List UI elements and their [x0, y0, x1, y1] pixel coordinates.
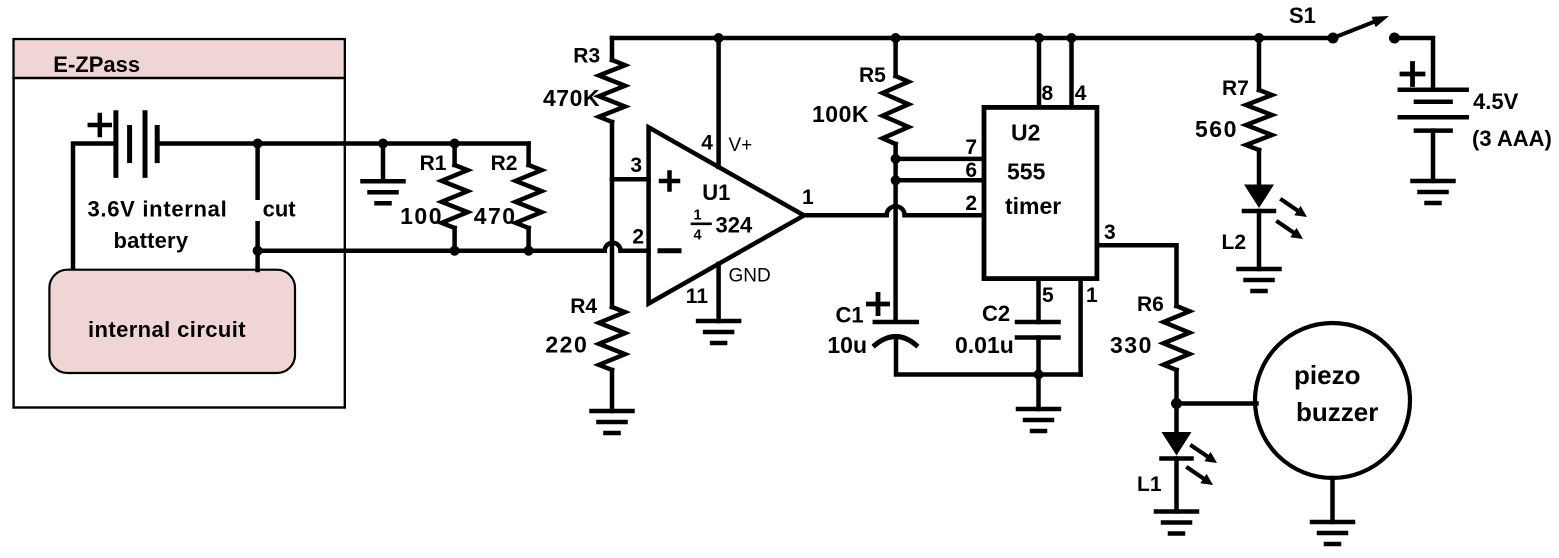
svg-text:100: 100 — [400, 203, 443, 229]
svg-text:4: 4 — [701, 132, 713, 155]
svg-text:battery: battery — [114, 228, 189, 253]
svg-text:C2: C2 — [982, 301, 1010, 326]
resistor R1 — [450, 139, 460, 149]
svg-text:470: 470 — [474, 203, 517, 229]
LED L2 — [1244, 185, 1274, 209]
resistor R7 — [1254, 33, 1264, 43]
wire R3 to R4 — [610, 122, 615, 307]
svg-text:555: 555 — [1007, 159, 1046, 185]
pin 4 — [1067, 33, 1077, 43]
ground below C2 — [1018, 407, 1059, 412]
svg-text:2: 2 — [632, 226, 644, 249]
pin 3 wire — [1099, 245, 1176, 306]
resistor R5 — [891, 33, 901, 43]
svg-text:R3: R3 — [573, 45, 600, 68]
ground below battery — [1413, 179, 1454, 184]
svg-text:1: 1 — [693, 208, 701, 224]
wire top power rail — [612, 36, 1334, 41]
svg-text:V+: V+ — [729, 135, 753, 156]
node cut bottom junction — [253, 246, 263, 256]
pin 8 — [1034, 33, 1044, 43]
svg-text:cut: cut — [263, 197, 297, 222]
svg-text:E-ZPass: E-ZPass — [53, 52, 140, 77]
node pin6 junction — [891, 175, 901, 185]
wire cut lower segment — [255, 223, 260, 270]
wire hop over R3-R4 line — [605, 243, 621, 251]
LED L1 — [1162, 432, 1192, 456]
svg-text:100K: 100K — [812, 101, 869, 127]
resistor R3 — [610, 38, 615, 60]
node cut top junction — [253, 139, 263, 149]
pin 5 — [1036, 281, 1041, 322]
svg-text:330: 330 — [1110, 332, 1153, 358]
resistor R2 — [526, 144, 531, 166]
svg-text:S1: S1 — [1289, 3, 1316, 28]
svg-text:GND: GND — [729, 266, 771, 287]
svg-text:11: 11 — [686, 285, 709, 308]
pin 4 V+ — [716, 38, 721, 167]
svg-text:560: 560 — [1195, 116, 1238, 142]
wire R5 to C1 — [893, 144, 898, 322]
svg-text:3: 3 — [630, 154, 642, 177]
plus input sign — [661, 179, 678, 184]
svg-text:timer: timer — [1005, 193, 1061, 219]
pin 6 wire — [896, 178, 982, 183]
svg-text:R4: R4 — [570, 295, 597, 318]
ground below buzzer — [1312, 520, 1353, 525]
ground near E-ZPass — [378, 139, 388, 149]
wire lower rail to op-amp minus input — [258, 248, 605, 253]
node R6/L1/buzzer junction — [1171, 398, 1182, 409]
wire C1 bottom — [896, 337, 1081, 375]
svg-text:R1: R1 — [420, 152, 447, 175]
svg-text:0.01u: 0.01u — [955, 332, 1014, 358]
svg-text:8: 8 — [1042, 82, 1054, 105]
svg-text:220: 220 — [545, 332, 588, 358]
svg-text:4: 4 — [1075, 82, 1087, 105]
svg-text:piezo: piezo — [1294, 360, 1360, 390]
pin 7 wire — [896, 157, 982, 162]
resistor R6 — [1164, 306, 1190, 370]
wire switch to battery — [1395, 38, 1434, 90]
svg-text:470K: 470K — [543, 85, 600, 111]
node pin7 junction — [891, 154, 901, 164]
capacitor C1 — [875, 320, 917, 325]
battery B1 3.6V — [113, 113, 118, 176]
pin 1 — [1078, 281, 1083, 375]
minus input sign — [660, 248, 679, 253]
svg-text:R5: R5 — [859, 64, 886, 87]
svg-text:7: 7 — [965, 136, 977, 159]
internal circuit block — [49, 270, 295, 373]
ground below R4 — [592, 409, 633, 414]
svg-text:L2: L2 — [1222, 231, 1247, 254]
op-amp U1 — [649, 127, 804, 303]
svg-text:4.5V: 4.5V — [1473, 89, 1519, 114]
pin 11 GND — [716, 264, 721, 321]
svg-text:2: 2 — [965, 192, 977, 215]
svg-text:3: 3 — [1104, 221, 1116, 244]
svg-text:10u: 10u — [827, 332, 867, 358]
svg-text:U2: U2 — [1011, 120, 1040, 146]
svg-text:1: 1 — [1086, 284, 1098, 307]
ground below L2 — [1239, 267, 1280, 272]
svg-text:6: 6 — [965, 159, 977, 182]
ground below pin 11 — [698, 319, 739, 324]
svg-text:R2: R2 — [491, 152, 518, 175]
wire to buzzer — [1177, 401, 1257, 406]
piezo buzzer — [1255, 323, 1410, 478]
ground below L1 — [1156, 509, 1197, 514]
svg-text:(3 AAA): (3 AAA) — [1472, 126, 1552, 151]
svg-text:U1: U1 — [702, 180, 730, 205]
svg-text:buzzer: buzzer — [1296, 397, 1378, 427]
wire battery left lead — [73, 144, 116, 271]
battery B2 4.5V — [1400, 88, 1467, 93]
wire hop over R5-C1 line — [887, 206, 905, 215]
svg-text:internal circuit: internal circuit — [88, 317, 246, 342]
resistor R4 — [599, 307, 625, 370]
svg-text:5: 5 — [1042, 284, 1054, 307]
wire cut upper segment — [255, 144, 260, 198]
svg-text:4: 4 — [693, 228, 701, 244]
switch S1 — [1328, 33, 1339, 44]
pin 1 output wire — [804, 213, 887, 218]
svg-text:L1: L1 — [1137, 473, 1162, 496]
node C2 ground junction — [1034, 370, 1044, 380]
E-ZPass box — [14, 39, 345, 407]
555 timer U2 — [984, 107, 1097, 278]
wire pin3 input — [612, 177, 649, 182]
capacitor C2 — [1017, 320, 1059, 325]
svg-text:3.6V internal: 3.6V internal — [88, 196, 228, 221]
svg-text:C1: C1 — [836, 302, 864, 327]
svg-text:R6: R6 — [1137, 293, 1164, 316]
svg-text:324: 324 — [716, 213, 753, 238]
svg-text:R7: R7 — [1222, 77, 1249, 100]
wire battery to R1/R2 top rail — [157, 141, 528, 146]
svg-text:1: 1 — [802, 186, 814, 209]
